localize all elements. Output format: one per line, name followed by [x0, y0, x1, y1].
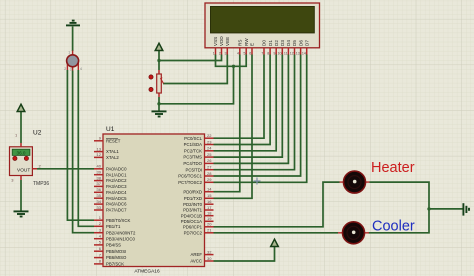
- svg-text:1: 1: [213, 52, 215, 56]
- node: heater-cooler ground junction: [427, 207, 430, 210]
- svg-text:16: 16: [207, 199, 212, 204]
- LCD LM016L: [205, 3, 320, 48]
- svg-text:PA1/ADC1: PA1/ADC1: [106, 172, 127, 177]
- ground top (inverted) above motor: [66, 21, 80, 26]
- svg-text:RW: RW: [244, 38, 249, 46]
- ground below TMP36: [14, 211, 29, 216]
- overbar RESET: [106, 138, 118, 140]
- LCD pin stubs: [216, 48, 307, 55]
- wire: pot top node to LCD VDD: [159, 55, 222, 61]
- svg-text:PC4/TDO: PC4/TDO: [183, 161, 202, 166]
- wire: LCD D4 to PC4: [214, 55, 289, 164]
- svg-text:PC1/SDA: PC1/SDA: [184, 142, 203, 147]
- svg-text:33: 33: [97, 205, 102, 210]
- svg-text:E: E: [250, 43, 255, 46]
- svg-text:PB6/MISO: PB6/MISO: [106, 255, 127, 260]
- svg-text:17: 17: [207, 205, 212, 210]
- svg-text:PB3/AIN1/OC0: PB3/AIN1/OC0: [106, 236, 136, 241]
- wire: crystal-motor top pin to top ground: [72, 27, 74, 52]
- svg-text:12: 12: [97, 152, 102, 157]
- svg-text:VOUT: VOUT: [17, 167, 30, 173]
- heater load: [340, 171, 370, 193]
- svg-text:PD3/INT1: PD3/INT1: [183, 208, 202, 213]
- svg-text:5: 5: [243, 52, 245, 56]
- svg-text:25: 25: [207, 152, 212, 157]
- wire: LCD D7 to PC7: [214, 55, 307, 183]
- svg-text:VDD: VDD: [219, 36, 224, 46]
- svg-text:U1: U1: [106, 126, 115, 133]
- svg-text:PA5/ADC5: PA5/ADC5: [106, 196, 127, 201]
- wire: motor pin right down to PB1: [78, 70, 94, 226]
- svg-text:PD5/OC1A: PD5/OC1A: [181, 219, 202, 224]
- svg-text:9: 9: [273, 52, 275, 56]
- svg-text:27: 27: [207, 165, 212, 170]
- wire: motor pin centre down to PB2: [73, 71, 94, 233]
- svg-text:22: 22: [207, 133, 212, 138]
- svg-text:XTAL1: XTAL1: [106, 149, 119, 154]
- svg-text:D6: D6: [298, 40, 303, 46]
- svg-text:21: 21: [207, 228, 212, 233]
- node: LCD ground drop junction: [232, 65, 235, 68]
- svg-text:29: 29: [207, 177, 212, 182]
- svg-text:U2: U2: [33, 130, 42, 137]
- wire: LCD D3 to PC3: [214, 55, 283, 158]
- wire: TMP36 VOUT to PA0: [37, 168, 94, 170]
- svg-text:Heater: Heater: [371, 160, 415, 176]
- svg-text:PD4/OC1B: PD4/OC1B: [181, 213, 202, 218]
- svg-text:3: 3: [70, 68, 72, 72]
- chip pin names left: [106, 138, 136, 266]
- svg-text:1: 1: [68, 51, 70, 55]
- chip pin stubs left: [94, 141, 103, 264]
- cooler load: [338, 222, 369, 244]
- svg-text:TMP36: TMP36: [33, 181, 49, 187]
- wire: LCD D6 to PC6: [214, 55, 301, 177]
- ground right (rotated) for heater/cooler: [463, 203, 469, 215]
- chip pin numbers right: [207, 133, 212, 261]
- svg-text:4: 4: [80, 67, 82, 71]
- svg-text:23: 23: [207, 139, 212, 144]
- wire: LCD D5 to PC5: [214, 55, 295, 170]
- svg-text:D3: D3: [280, 40, 285, 46]
- svg-text:AVCC: AVCC: [190, 259, 202, 264]
- svg-text:10: 10: [278, 52, 282, 56]
- svg-text:PC0/SCL: PC0/SCL: [184, 136, 203, 141]
- svg-text:7: 7: [261, 52, 263, 56]
- svg-text:30: 30: [207, 256, 212, 261]
- svg-text:PB0/T0/XCK: PB0/T0/XCK: [106, 218, 130, 223]
- svg-text:19: 19: [207, 216, 212, 221]
- wire: heater right to junction: [369, 182, 430, 233]
- pot RV1: [149, 70, 164, 97]
- power VCC arrow above TMP36: [17, 104, 25, 111]
- svg-text:VSS: VSS: [213, 37, 218, 46]
- svg-text:PB4/SS: PB4/SS: [106, 243, 121, 248]
- wire: TMP36 pin1 to VCC arrow: [20, 112, 22, 144]
- svg-text:PD7/OC2: PD7/OC2: [184, 230, 203, 235]
- svg-text:13: 13: [296, 52, 300, 56]
- svg-text:14: 14: [207, 187, 212, 192]
- wire: PD6 to heater: [214, 182, 340, 227]
- svg-text:PB2/AIN0/INT2: PB2/AIN0/INT2: [106, 230, 136, 235]
- svg-text:VEE: VEE: [225, 37, 230, 46]
- svg-text:18: 18: [207, 211, 212, 216]
- svg-text:11: 11: [284, 52, 288, 56]
- svg-text:PA2/ADC2: PA2/ADC2: [106, 178, 127, 183]
- LCD pin numbers: [213, 52, 306, 56]
- svg-text:39: 39: [97, 170, 102, 175]
- LCD pin labels (rotated): [213, 36, 309, 46]
- ground below pot: [152, 111, 167, 116]
- svg-text:26: 26: [207, 158, 212, 163]
- svg-text:D4: D4: [286, 40, 291, 46]
- wire: TMP36 pin3 to ground: [20, 180, 22, 211]
- power VCC arrow at AVCC: [271, 239, 279, 246]
- svg-text:D2: D2: [274, 40, 279, 46]
- power VCC arrow above pot: [155, 43, 163, 50]
- wire: pot bottom node to ground drop: [158, 97, 160, 111]
- svg-text:PB1/T1: PB1/T1: [106, 224, 121, 229]
- svg-text:15: 15: [207, 193, 212, 198]
- wire: LCD RS to PD0: [214, 55, 240, 192]
- svg-text:RS: RS: [238, 40, 243, 46]
- svg-text:37: 37: [97, 181, 102, 186]
- wire: LCD E to PD1: [214, 55, 253, 199]
- svg-text:Cooler: Cooler: [372, 219, 415, 235]
- svg-text:4: 4: [237, 52, 239, 56]
- svg-text:XTAL2: XTAL2: [106, 155, 119, 160]
- origin cross marker: [254, 178, 261, 185]
- svg-text:D0: D0: [262, 40, 267, 46]
- chip pin stubs right: [205, 138, 214, 261]
- svg-text:40: 40: [97, 164, 102, 169]
- svg-text:PD0/RXD: PD0/RXD: [183, 189, 202, 194]
- svg-text:PB5/MOSI: PB5/MOSI: [106, 249, 126, 254]
- wire: LCD VSS / RW ground line: [216, 55, 247, 67]
- svg-text:12: 12: [290, 52, 294, 56]
- svg-text:38: 38: [97, 175, 102, 180]
- svg-text:PC7/TOSC2: PC7/TOSC2: [178, 180, 202, 185]
- wire: LCD D0 to PC0: [214, 55, 265, 139]
- svg-text:D5: D5: [292, 40, 297, 46]
- svg-text:PA4/ADC4: PA4/ADC4: [106, 190, 127, 195]
- svg-text:28: 28: [207, 171, 212, 176]
- svg-text:PD6/ICP1: PD6/ICP1: [183, 224, 203, 229]
- wire: AVCC to VCC arrow: [214, 247, 275, 262]
- svg-text:AREF: AREF: [191, 252, 203, 257]
- svg-text:8: 8: [267, 52, 269, 56]
- svg-text:13: 13: [97, 146, 102, 151]
- svg-text:PD2/INT0: PD2/INT0: [183, 202, 202, 207]
- svg-text:PC6/TOSC1: PC6/TOSC1: [178, 174, 202, 179]
- wire: pot wiper to LCD VEE: [163, 55, 227, 84]
- svg-text:PC3/TMS: PC3/TMS: [183, 155, 202, 160]
- svg-text:36: 36: [97, 187, 102, 192]
- svg-text:14: 14: [302, 52, 306, 56]
- svg-text:PA3/ADC3: PA3/ADC3: [106, 184, 127, 189]
- svg-text:PC5/TDI: PC5/TDI: [186, 167, 202, 172]
- svg-text:PC2/TCK: PC2/TCK: [184, 148, 202, 153]
- ATMEGA16 U1: [103, 126, 205, 274]
- svg-text:D7: D7: [304, 40, 309, 46]
- svg-text:2: 2: [219, 52, 221, 56]
- svg-text:3: 3: [225, 52, 227, 56]
- svg-text:35: 35: [97, 193, 102, 198]
- svg-text:PD1/TXD: PD1/TXD: [184, 196, 202, 201]
- svg-text:D1: D1: [268, 40, 273, 46]
- chip pin names right: [178, 136, 202, 264]
- TMP36 U2: [10, 130, 50, 188]
- wire: PD7 to cooler: [214, 232, 339, 234]
- svg-text:PA7/ADC7: PA7/ADC7: [106, 208, 127, 213]
- svg-text:PA0/ADC0: PA0/ADC0: [106, 166, 127, 171]
- crystal-motor round component: [64, 51, 82, 72]
- node: pot top junction: [157, 59, 160, 62]
- svg-text:36.0: 36.0: [17, 151, 26, 156]
- svg-text:24: 24: [207, 146, 212, 151]
- wire: LCD D2 to PC2: [214, 55, 277, 151]
- svg-text:32: 32: [207, 249, 212, 254]
- svg-text:PA6/ADC6: PA6/ADC6: [106, 202, 127, 207]
- wire: motor pin left down to PB0: [67, 70, 94, 220]
- svg-text:20: 20: [207, 222, 212, 227]
- wire: LCD D1 to PC1: [214, 55, 271, 145]
- svg-text:RESET: RESET: [106, 138, 121, 143]
- wire: VCC arrow to pot top node: [158, 51, 160, 71]
- chip pin numbers left: [97, 136, 102, 264]
- svg-text:2: 2: [64, 67, 66, 71]
- svg-text:PB7/SCK: PB7/SCK: [106, 262, 124, 267]
- svg-text:ATMEGA16: ATMEGA16: [134, 268, 160, 274]
- svg-text:34: 34: [97, 199, 102, 204]
- svg-text:6: 6: [249, 52, 251, 56]
- wire: junction to right ground: [429, 208, 463, 210]
- node: pot bottom junction: [157, 102, 160, 105]
